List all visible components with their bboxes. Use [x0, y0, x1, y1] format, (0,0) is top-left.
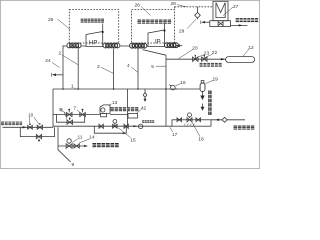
label 12 leader [243, 49, 249, 57]
dashed enclosure 25 (HP steam valve box) [69, 10, 118, 44]
wire: leakoff line C1 inner [77, 48, 79, 89]
vent 24 arrow [56, 74, 64, 76]
control valve on line 14 [66, 143, 72, 148]
junction dots on header [62, 88, 167, 90]
valve 10a [28, 125, 33, 129]
gland seal coil C1 (HP left) [67, 43, 81, 48]
valve right of 11 [124, 124, 128, 128]
label 2 leader [62, 55, 78, 65]
wire: leakoff line 3 (C2) [113, 48, 115, 89]
drain line 9 [58, 127, 71, 162]
vertical text to-drain-flash-tank [208, 91, 211, 116]
shaft segments HP [63, 45, 131, 47]
label 23 leader [197, 55, 205, 58]
node dot IP corner [163, 29, 165, 31]
flow arrow [221, 58, 225, 60]
label 28 leader [177, 5, 186, 7]
label 7 leader [77, 110, 80, 113]
label 14 leader [72, 139, 78, 143]
text to-gland-heater [111, 107, 139, 111]
svg-text:7: 7 [73, 105, 76, 111]
svg-text:29: 29 [179, 29, 185, 35]
svg-text:18: 18 [198, 137, 204, 143]
bypass with valve 8 [57, 115, 85, 123]
valve 15 [74, 144, 79, 148]
aux steam supply line [3, 126, 54, 127]
svg-text:22: 22 [212, 50, 218, 56]
label 27 leader [223, 7, 233, 16]
svg-text:17: 17 [172, 132, 178, 138]
label 17 leader [170, 127, 173, 132]
safety seal 19 [200, 83, 205, 92]
gland seal coil C3 (IP left) [130, 43, 147, 48]
orifice diamond [222, 117, 227, 122]
svg-text:4: 4 [127, 63, 130, 69]
drain left arrow [205, 21, 210, 23]
IP admission line [164, 24, 166, 31]
condensate supply from right [211, 119, 245, 121]
label 22 leader [205, 54, 212, 57]
text to-condensate-pump [236, 18, 258, 22]
gland steam header (box 1 top edge) [53, 88, 200, 90]
svg-text:8: 8 [60, 107, 63, 113]
bypass flow arrow [123, 132, 126, 134]
wire: leakoff line 2 (C1 outer) [62, 46, 64, 90]
svg-text:15: 15 [130, 137, 136, 143]
svg-text:12: 12 [248, 45, 254, 51]
HP turbine [86, 32, 103, 47]
label 3 leader [101, 67, 114, 73]
silencer 42 [128, 114, 138, 118]
svg-text:23: 23 [204, 51, 210, 57]
label 8 leader [64, 112, 67, 120]
svg-text:11: 11 [78, 135, 83, 141]
wire: line 5 riser [165, 55, 167, 126]
node dot HP corner [102, 31, 104, 33]
svg-text:20: 20 [192, 45, 198, 51]
svg-text:19: 19 [213, 77, 219, 83]
svg-text:3: 3 [97, 64, 100, 70]
valve 10b [37, 125, 42, 129]
fan 13 [100, 105, 110, 114]
label 19 leader [205, 80, 213, 83]
condenser drain tank [210, 21, 231, 27]
shaft segments IP [147, 45, 148, 47]
valve in drain tank [218, 22, 223, 26]
dashed enclosure 26 (IP valve box) [132, 10, 175, 44]
label 1 leader [75, 88, 77, 90]
valve 7 [80, 110, 86, 116]
drain with orifice below header [144, 89, 146, 99]
label 25 leader [58, 19, 71, 30]
label 16 leader [175, 84, 180, 86]
drain arrows below 19 [202, 92, 204, 96]
text to-system-reheater [200, 63, 222, 67]
glyph texture slits [1, 19, 259, 145]
svg-text:14: 14 [89, 135, 95, 141]
wire: leakoff diagonal to line 5 [143, 50, 167, 56]
svg-text:5: 5 [151, 64, 154, 70]
label 18 leader [192, 123, 200, 137]
header box 1 right edge [127, 89, 129, 126]
svg-text:16: 16 [180, 80, 186, 86]
text from-IP-combined-valve in box 26 [138, 20, 172, 24]
svg-text:24: 24 [45, 58, 51, 64]
branch line 14 [58, 145, 85, 147]
label 26 leader [141, 7, 151, 16]
label 4 leader [131, 67, 138, 73]
gland seal coil C2 (HP right) [103, 43, 120, 48]
svg-text:9: 9 [72, 162, 75, 168]
valve left of 11 [99, 124, 103, 128]
label 24 leader [52, 63, 60, 68]
control valve 18 [187, 117, 192, 122]
valve right [196, 118, 201, 122]
dashed leakoff line 28 to gland condenser [175, 7, 214, 10]
label 29 leader [187, 19, 196, 29]
gland steam condenser 27 [213, 1, 228, 20]
text from-condensate right [234, 126, 255, 130]
flow arrow [134, 125, 138, 127]
IP turbine [148, 30, 165, 47]
svg-text:10: 10 [28, 113, 34, 119]
text from-condensate (small) [142, 120, 154, 123]
label 5 leader [156, 65, 166, 67]
svg-text:13: 13 [112, 100, 118, 106]
valve 6 [67, 110, 73, 116]
number labels [28, 1, 254, 168]
label 10 leaders [30, 117, 39, 124]
steam trap 16 on header [171, 85, 176, 90]
label 42 leader [136, 109, 141, 113]
border frame [0, 0, 259, 168]
flow arrow to feedpump glands [84, 145, 88, 147]
svg-text:25: 25 [48, 17, 54, 23]
text from-aux-steam-source [1, 122, 22, 126]
svg-text:28: 28 [171, 1, 177, 7]
header box 1 left edge [52, 89, 54, 126]
control valve 11 [113, 123, 118, 128]
condensate link line to water seal [128, 125, 173, 127]
svg-text:2: 2 [59, 51, 62, 57]
flow glass circle [139, 124, 143, 128]
aux bypass loop [20, 127, 54, 136]
svg-text:42: 42 [141, 105, 147, 111]
svg-text:26: 26 [135, 2, 141, 8]
label 15 leader [119, 128, 131, 138]
text to-feedpump-seals [93, 143, 119, 147]
line 20 to header ring [166, 58, 226, 60]
branch line L1 in box 1 [53, 114, 128, 116]
orifice 29 [197, 7, 199, 19]
svg-text:HP: HP [89, 40, 97, 46]
svg-text:IP: IP [155, 39, 161, 45]
wire: leakoff line 4 (C3) [137, 49, 139, 90]
valve 23 [193, 56, 198, 61]
label 13 leader [109, 104, 112, 106]
aux bypass valve [36, 135, 41, 141]
water seal tank 17 [172, 120, 211, 126]
text from-main-steam-valve in box 25 [81, 19, 104, 23]
label 15 leader [79, 139, 90, 144]
drain outlet arrow to condensate pump [231, 24, 248, 26]
steam distributor 12 [226, 57, 255, 63]
valve 22 [202, 56, 207, 61]
bypass below box1 bottom [94, 126, 126, 133]
aux flow arrow [23, 126, 27, 128]
HP admission line [102, 24, 104, 32]
svg-text:27: 27 [233, 4, 239, 10]
header box 1 bottom edge [53, 125, 128, 127]
label 6 leader [63, 111, 66, 113]
gland seal coil C4 (IP right) [165, 43, 179, 48]
valve on seal line [177, 118, 182, 122]
svg-text:1: 1 [71, 84, 74, 90]
water level hatches [184, 124, 195, 126]
label 20 leader [179, 50, 193, 59]
leak line arrow into C4 end [179, 45, 182, 47]
